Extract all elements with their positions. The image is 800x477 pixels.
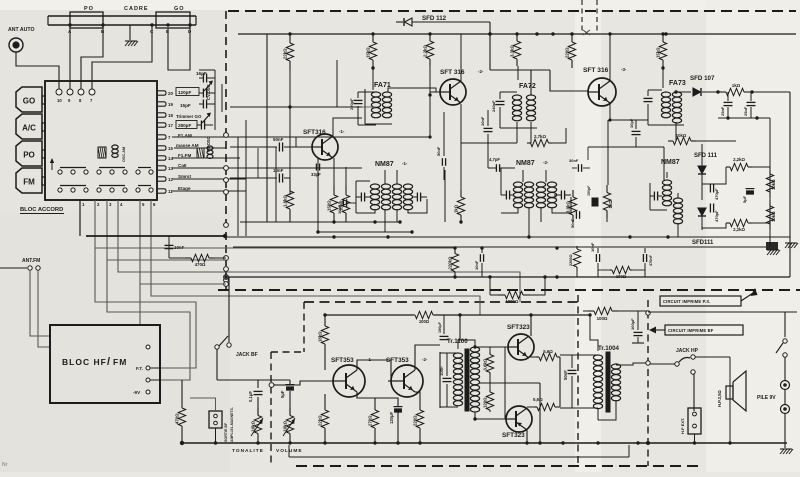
svg-text:280pF: 280pF bbox=[178, 123, 191, 128]
svg-text:CADRE: CADRE bbox=[124, 6, 149, 12]
svg-text:10nF: 10nF bbox=[590, 242, 595, 252]
svg-text:100Ω: 100Ω bbox=[616, 274, 627, 279]
svg-text:-2-: -2- bbox=[422, 357, 428, 362]
svg-text:TONALITE: TONALITE bbox=[232, 448, 264, 454]
svg-text:CIRCUIT IMPRIME P.S.: CIRCUIT IMPRIME P.S. bbox=[663, 299, 711, 304]
svg-text:50nF: 50nF bbox=[563, 370, 568, 380]
svg-text:220Ω: 220Ω bbox=[413, 415, 418, 426]
svg-text:AMPLI.EL.MAGNETS.: AMPLI.EL.MAGNETS. bbox=[230, 407, 234, 442]
svg-text:PO: PO bbox=[84, 6, 94, 12]
svg-text:CV.OSC: CV.OSC bbox=[206, 84, 211, 100]
svg-text:PILE 9V: PILE 9V bbox=[757, 395, 776, 401]
svg-text:5,6Ω: 5,6Ω bbox=[533, 397, 543, 402]
svg-text:15kΩ: 15kΩ bbox=[366, 47, 371, 58]
svg-text:-1-: -1- bbox=[402, 161, 408, 166]
svg-text:100Ω: 100Ω bbox=[597, 316, 608, 321]
svg-text:GO: GO bbox=[174, 6, 185, 12]
svg-text:10nF: 10nF bbox=[174, 245, 185, 250]
svg-text:10nF: 10nF bbox=[480, 116, 485, 126]
svg-text:470pF: 470pF bbox=[714, 188, 719, 200]
svg-text:Smrst: Smrst bbox=[178, 174, 191, 179]
svg-text:3,6kΩ: 3,6kΩ bbox=[483, 358, 488, 370]
svg-text:100kΩ: 100kΩ bbox=[505, 299, 519, 304]
svg-text:NM87: NM87 bbox=[375, 161, 394, 168]
svg-text:240pF: 240pF bbox=[491, 100, 496, 112]
svg-text:270Ω: 270Ω bbox=[368, 415, 373, 426]
svg-text:CIRCUIT IMPRIME BF: CIRCUIT IMPRIME BF bbox=[668, 328, 714, 333]
svg-text:10nF: 10nF bbox=[474, 260, 479, 270]
svg-text:2,7kΩ: 2,7kΩ bbox=[534, 134, 547, 139]
svg-text:15pF: 15pF bbox=[180, 103, 191, 108]
svg-text:50nF: 50nF bbox=[273, 137, 284, 142]
svg-text:masse AM: masse AM bbox=[176, 143, 199, 148]
svg-text:SFT323: SFT323 bbox=[502, 432, 525, 439]
svg-text:SFD111: SFD111 bbox=[692, 240, 714, 246]
svg-text:F.T.: F.T. bbox=[136, 366, 143, 371]
svg-text:120μF: 120μF bbox=[389, 411, 394, 424]
svg-text:F1.FM: F1.FM bbox=[178, 153, 191, 158]
svg-text:1kΩ: 1kΩ bbox=[608, 200, 613, 209]
svg-text:SFD 112: SFD 112 bbox=[422, 15, 447, 22]
svg-text:-3-: -3- bbox=[621, 67, 627, 72]
svg-text:1kΩ: 1kΩ bbox=[454, 204, 459, 213]
svg-text:2,2kΩ: 2,2kΩ bbox=[423, 45, 428, 57]
svg-text:10kΩ: 10kΩ bbox=[676, 133, 687, 138]
svg-text:3,9kΩ: 3,9kΩ bbox=[566, 201, 571, 213]
svg-text:Tr.1004: Tr.1004 bbox=[598, 345, 620, 352]
svg-text:JACK BF: JACK BF bbox=[236, 352, 258, 358]
svg-text:1,8kΩ: 1,8kΩ bbox=[283, 195, 288, 207]
svg-text:15kΩ: 15kΩ bbox=[656, 47, 661, 58]
svg-text:470Ω: 470Ω bbox=[195, 262, 206, 267]
svg-text:470pF: 470pF bbox=[714, 210, 719, 222]
svg-text:10nF: 10nF bbox=[337, 204, 342, 214]
svg-text:SFT 316: SFT 316 bbox=[583, 67, 609, 74]
svg-text:SFD 111: SFD 111 bbox=[694, 153, 718, 159]
svg-text:220Ω: 220Ω bbox=[565, 47, 570, 58]
svg-text:10nF: 10nF bbox=[439, 366, 444, 376]
svg-text:2200Ω: 2200Ω bbox=[569, 255, 573, 267]
svg-text:GO: GO bbox=[23, 97, 35, 106]
svg-text:10: 10 bbox=[57, 98, 62, 103]
svg-text:220kΩ: 220kΩ bbox=[448, 256, 453, 270]
svg-text:H.P EXT.: H.P EXT. bbox=[680, 418, 685, 434]
svg-text:50nF: 50nF bbox=[570, 218, 575, 228]
svg-text:19: 19 bbox=[168, 102, 173, 107]
svg-text:Nr: Nr bbox=[2, 462, 8, 468]
svg-text:5μF: 5μF bbox=[280, 390, 285, 398]
svg-text:20: 20 bbox=[168, 91, 173, 96]
svg-text:10nF: 10nF bbox=[273, 168, 284, 173]
svg-text:10kΩ: 10kΩ bbox=[771, 211, 776, 222]
svg-text:-2-: -2- bbox=[478, 69, 484, 74]
svg-text:Etage: Etage bbox=[178, 186, 191, 191]
svg-text:30nF: 30nF bbox=[569, 158, 579, 163]
svg-text:25nF: 25nF bbox=[743, 106, 748, 116]
svg-text:FA72: FA72 bbox=[519, 83, 536, 90]
svg-text:150Ω: 150Ω bbox=[327, 200, 332, 211]
svg-text:0,1μF: 0,1μF bbox=[248, 391, 253, 402]
svg-text:1kΩ: 1kΩ bbox=[732, 83, 741, 88]
svg-text:SORTIE BF: SORTIE BF bbox=[224, 422, 228, 442]
svg-text:3,3kΩ: 3,3kΩ bbox=[510, 45, 515, 57]
svg-text:FA73: FA73 bbox=[669, 80, 686, 87]
svg-text:ANT.FM: ANT.FM bbox=[22, 258, 40, 264]
svg-text:150pF: 150pF bbox=[587, 185, 591, 196]
svg-text:120pF: 120pF bbox=[178, 90, 191, 95]
svg-text:-2-: -2- bbox=[543, 160, 549, 165]
svg-text:/: / bbox=[107, 356, 110, 368]
svg-text:15: 15 bbox=[168, 146, 173, 151]
svg-text:SFT323: SFT323 bbox=[507, 324, 530, 331]
svg-text:-9V: -9V bbox=[133, 390, 141, 395]
svg-text:SFT353: SFT353 bbox=[331, 357, 354, 364]
svg-text:-1-: -1- bbox=[339, 129, 345, 134]
svg-text:BLOC ACCORD: BLOC ACCORD bbox=[20, 207, 63, 213]
svg-text:25nF: 25nF bbox=[720, 106, 725, 116]
svg-text:SFD 107: SFD 107 bbox=[690, 75, 715, 82]
svg-text:17: 17 bbox=[168, 123, 173, 128]
svg-text:H.P.3,5Ω: H.P.3,5Ω bbox=[717, 390, 722, 407]
svg-text:16pF: 16pF bbox=[196, 71, 207, 76]
svg-text:220pF: 220pF bbox=[349, 98, 354, 110]
svg-text:18: 18 bbox=[168, 113, 173, 118]
svg-text:BLOC HF: BLOC HF bbox=[62, 357, 107, 367]
svg-text:FM: FM bbox=[23, 178, 35, 187]
svg-text:4,7pF: 4,7pF bbox=[489, 157, 500, 162]
svg-text:NM87: NM87 bbox=[516, 160, 535, 167]
svg-text:100μF: 100μF bbox=[630, 318, 635, 330]
svg-text:2,2kΩ: 2,2kΩ bbox=[733, 227, 745, 232]
svg-text:ANT AUTO: ANT AUTO bbox=[8, 27, 35, 33]
svg-text:22kΩ: 22kΩ bbox=[318, 415, 323, 426]
svg-text:470Ω: 470Ω bbox=[175, 413, 180, 424]
svg-text:A/C: A/C bbox=[22, 124, 36, 133]
svg-text:OSC.AM: OSC.AM bbox=[122, 147, 126, 162]
svg-text:PO: PO bbox=[23, 151, 35, 160]
svg-text:2,2kΩ: 2,2kΩ bbox=[733, 157, 745, 162]
svg-text:5,6Ω: 5,6Ω bbox=[543, 349, 553, 354]
svg-text:5μF: 5μF bbox=[742, 195, 747, 203]
svg-text:10pF: 10pF bbox=[629, 118, 634, 128]
svg-text:FM: FM bbox=[113, 357, 127, 367]
svg-text:10kΩ: 10kΩ bbox=[771, 179, 776, 190]
svg-text:100Ω: 100Ω bbox=[419, 319, 430, 324]
svg-text:120Ω: 120Ω bbox=[483, 397, 488, 408]
svg-text:18kΩ: 18kΩ bbox=[318, 331, 323, 342]
svg-text:100μF: 100μF bbox=[438, 321, 442, 333]
svg-text:470nF: 470nF bbox=[649, 254, 653, 266]
svg-text:Trimmer GO: Trimmer GO bbox=[176, 114, 202, 119]
svg-text:33pF: 33pF bbox=[311, 172, 321, 177]
svg-text:JACK HP: JACK HP bbox=[676, 348, 699, 354]
svg-text:22kΩ: 22kΩ bbox=[283, 48, 288, 59]
svg-text:CaII: CaII bbox=[178, 163, 186, 168]
svg-text:50nF: 50nF bbox=[436, 146, 441, 156]
